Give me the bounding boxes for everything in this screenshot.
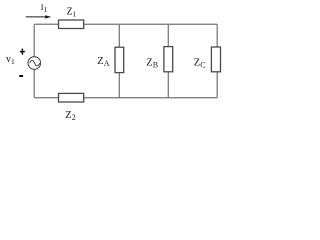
wire: ZB branch vertical	[167, 24, 169, 97]
impedance ZA (shunt)	[115, 47, 124, 72]
impedance ZC (shunt)	[211, 47, 220, 72]
plus sign	[20, 49, 25, 55]
current arrow I1	[26, 16, 47, 18]
wire: ZA branch vertical	[118, 24, 120, 97]
wire: bottom rail	[34, 97, 217, 99]
source v1 circle	[28, 57, 41, 70]
wire: right vertical	[216, 24, 218, 97]
impedance Z2 (series, bottom)	[59, 93, 84, 102]
sine wave inside source	[30, 60, 40, 66]
impedance Z1 (series, top)	[59, 20, 84, 29]
wire: top rail	[34, 23, 217, 25]
wire: left vertical	[33, 24, 35, 97]
impedance ZB (shunt)	[164, 47, 173, 72]
minus sign	[19, 75, 23, 77]
